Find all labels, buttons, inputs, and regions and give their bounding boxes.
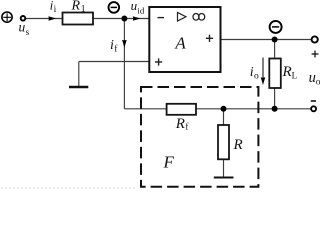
svg-text:1: 1 [81, 5, 86, 15]
svg-text:o: o [316, 78, 320, 88]
svg-text:o: o [254, 72, 259, 82]
svg-text:id: id [137, 5, 144, 15]
svg-text:i: i [54, 5, 57, 15]
svg-text:L: L [292, 70, 298, 80]
svg-text:f: f [185, 121, 188, 131]
svg-text:R: R [233, 137, 243, 153]
svg-text:s: s [26, 27, 30, 37]
svg-text:F: F [163, 152, 175, 171]
svg-text:R: R [175, 116, 185, 132]
svg-text:R: R [282, 64, 292, 80]
svg-text:R: R [71, 0, 81, 13]
svg-text:u: u [19, 19, 26, 34]
svg-text:A: A [174, 33, 186, 52]
svg-text:u: u [309, 70, 316, 86]
